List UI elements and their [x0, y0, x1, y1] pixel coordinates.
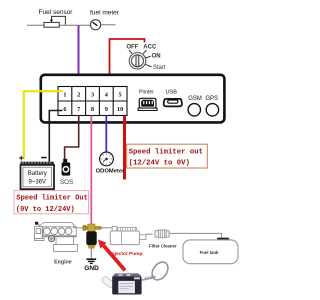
svg-text:GPS: GPS — [205, 96, 218, 102]
GSM antenna jack — [188, 104, 200, 116]
wire fuel line — [27, 24, 91, 26]
pipe engine to injector — [73, 227, 84, 229]
injector solenoid valve — [83, 224, 101, 249]
ignition switch SW1 — [129, 50, 152, 69]
fuel tank — [183, 238, 238, 264]
GPS antenna jack — [206, 104, 218, 116]
svg-text:6: 6 — [63, 106, 66, 113]
svg-text:Fuel tank: Fuel tank — [200, 250, 219, 255]
filter cleaner — [155, 230, 169, 238]
svg-text:Fuel sensor: Fuel sensor — [39, 9, 74, 16]
odometer M2 — [100, 152, 114, 166]
fuel pump — [110, 226, 146, 244]
svg-text:GSM: GSM — [188, 96, 202, 102]
svg-text:1: 1 — [63, 91, 66, 98]
svg-text:Start: Start — [153, 65, 166, 71]
printer port icon — [138, 98, 157, 110]
connector J1 grid — [58, 87, 127, 116]
svg-text:ODOMeter: ODOMeter — [96, 168, 125, 174]
engine block — [35, 222, 78, 252]
ground GND — [84, 249, 99, 272]
svg-text:Engine: Engine — [54, 260, 72, 266]
svg-text:9~36V: 9~36V — [29, 180, 47, 186]
shutoff valve device — [101, 273, 156, 294]
usb port icon — [164, 99, 182, 107]
pipe filter to tank — [169, 233, 221, 238]
svg-text:(0V to 12/24V): (0V to 12/24V) — [16, 206, 75, 214]
wire red thick pin10 speed limiter output — [123, 116, 126, 180]
wire maroon pin7 to SOS — [65, 116, 79, 160]
pipe pump to filter — [146, 233, 153, 235]
SOS button plug — [62, 159, 71, 176]
key ring — [149, 259, 171, 283]
wire blue pin9 to odometer — [105, 116, 107, 152]
svg-text:4: 4 — [105, 91, 108, 98]
svg-text:10: 10 — [117, 106, 123, 113]
speed limiter Out callout (left) — [14, 191, 89, 214]
svg-text:Printer: Printer — [139, 90, 154, 96]
wire pink pin8 to injector pump — [90, 116, 92, 226]
svg-text:Battery: Battery — [28, 171, 47, 177]
wire purple pin2 to fuel line — [78, 25, 80, 87]
svg-text:9: 9 — [105, 106, 108, 113]
svg-text:ACC: ACC — [143, 44, 157, 50]
svg-text:fuel meter: fuel meter — [90, 10, 120, 17]
wire black pin6 to battery - — [49, 111, 62, 162]
pipe injector to pump — [101, 227, 112, 229]
svg-text:Speed limiter out: Speed limiter out — [129, 148, 203, 156]
svg-text:SOS: SOS — [60, 179, 73, 186]
svg-text:5: 5 — [119, 91, 122, 98]
red arrow pointer — [98, 240, 125, 271]
svg-text:3: 3 — [91, 91, 94, 98]
svg-text:Injector Pump: Injector Pump — [110, 251, 142, 257]
wire red pin4 to ACC — [110, 39, 145, 87]
svg-text:USB: USB — [165, 90, 177, 96]
battery BT1 — [19, 153, 54, 189]
svg-text:Speed limiter Out: Speed limiter Out — [16, 195, 87, 203]
svg-text:GND: GND — [84, 265, 99, 272]
svg-text:ON: ON — [152, 54, 161, 60]
svg-text:7: 7 — [77, 106, 80, 113]
svg-text:OFF: OFF — [126, 44, 138, 50]
speed limiter out callout (right) — [127, 144, 208, 168]
pin numbers 1-10 — [63, 91, 123, 113]
fuel meter M1 — [91, 20, 116, 30]
svg-text:2: 2 — [77, 91, 80, 98]
tracker main unit box — [41, 75, 225, 123]
fuel sensor R (rheostat) — [44, 16, 65, 27]
svg-text:Filter Cleaner: Filter Cleaner — [149, 243, 177, 248]
svg-text:8: 8 — [91, 106, 94, 113]
svg-text:(12/24V to 0V): (12/24V to 0V) — [129, 160, 190, 168]
wire yellow pin1 to battery + — [24, 91, 63, 159]
